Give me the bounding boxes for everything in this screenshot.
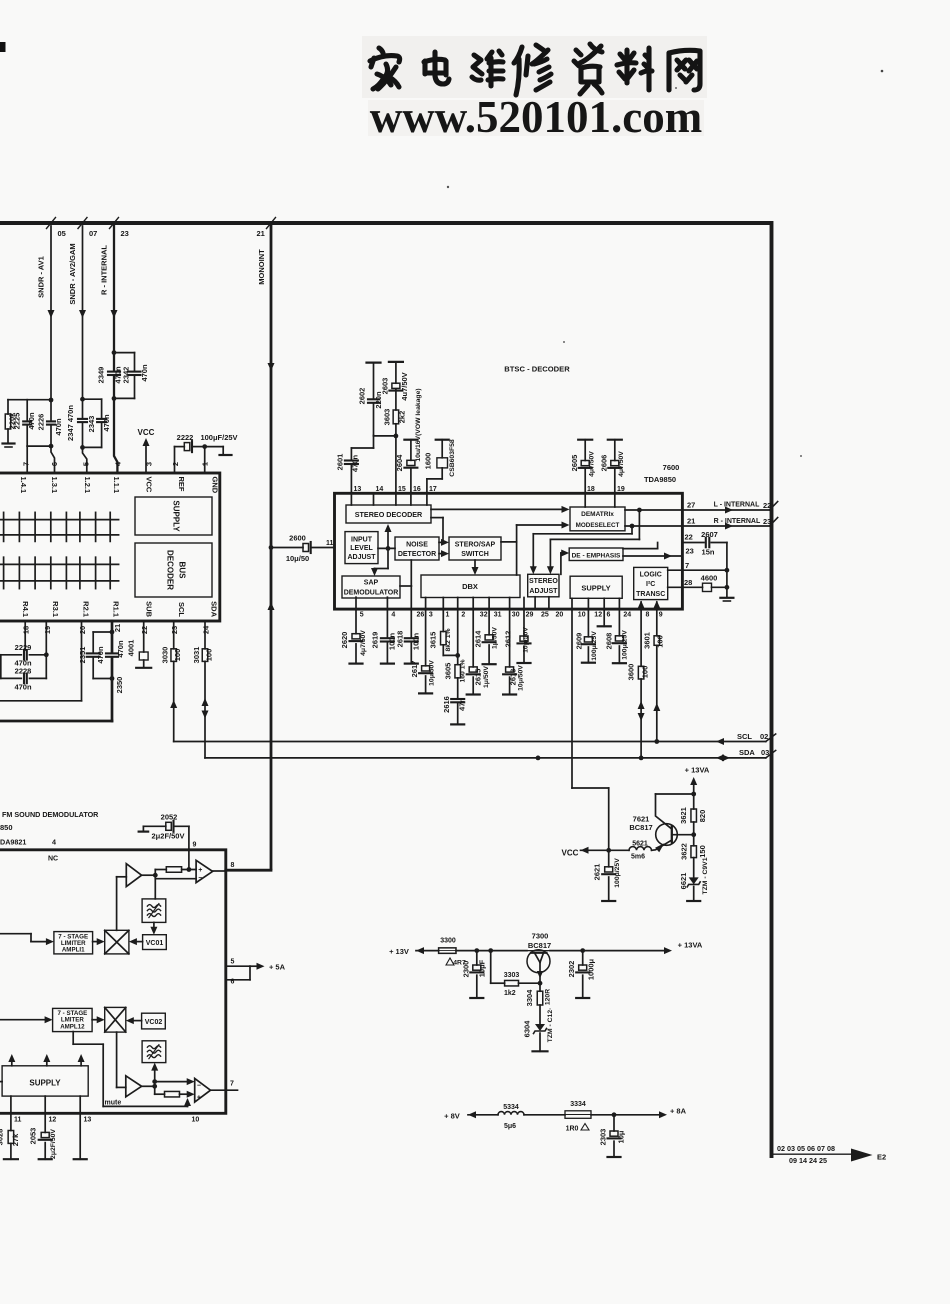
- block STERO/SAP SWITCH: [449, 537, 501, 560]
- svg-text:2302: 2302: [567, 961, 576, 978]
- svg-text:23: 23: [121, 229, 129, 238]
- svg-text:470n: 470n: [27, 412, 36, 430]
- svg-text:I²C: I²C: [646, 581, 655, 588]
- svg-text:470n: 470n: [102, 414, 111, 432]
- svg-text:3: 3: [145, 462, 154, 466]
- svg-text:ADJUST: ADJUST: [529, 588, 558, 595]
- wire R-INTERNAL: [113, 226, 115, 353]
- svg-text:L - INTERNAL: L - INTERNAL: [714, 502, 760, 509]
- svg-text:SUB: SUB: [145, 601, 154, 617]
- capacitor 2604 10u/16V: [410, 468, 412, 494]
- block STEREO DECODER: [346, 505, 431, 523]
- svg-text:4u7/50V: 4u7/50V: [400, 372, 409, 400]
- capacitor 2342 470n bracket: [114, 352, 135, 354]
- node junction: [488, 948, 493, 953]
- svg-text:27: 27: [687, 501, 695, 510]
- svg-text:20: 20: [556, 612, 564, 619]
- block DE-EMPHASIS: [569, 548, 623, 561]
- svg-text:DEMODULATOR: DEMODULATOR: [344, 590, 399, 597]
- svg-text:4: 4: [391, 612, 395, 619]
- resistor 3605 160: [457, 598, 459, 665]
- svg-text:TZM - C9V1: TZM - C9V1: [702, 857, 709, 894]
- svg-text:TDA9850: TDA9850: [644, 475, 676, 484]
- wire pin12: [587, 598, 589, 637]
- wire bracket top: [8, 399, 51, 401]
- node junction: [49, 398, 54, 403]
- resistor 3621 820: [693, 794, 695, 809]
- wire pin21 bus lower: [111, 658, 114, 721]
- ground: [3, 442, 15, 444]
- svg-text:4μ7/50V: 4μ7/50V: [360, 630, 367, 656]
- wire pin5: [355, 597, 357, 634]
- svg-text:6: 6: [231, 979, 235, 986]
- svg-text:2303: 2303: [599, 1129, 608, 1146]
- node bus notch 22: [770, 502, 778, 511]
- svg-text:30: 30: [512, 612, 520, 619]
- watermark header: [362, 36, 707, 98]
- wire: [133, 941, 143, 943]
- wire pin15: [395, 436, 397, 493]
- wire to pin 4: [114, 398, 117, 473]
- opamp buffer 2: [126, 1076, 142, 1097]
- node bus tap 21: [267, 218, 276, 229]
- svg-text:1.1.1: 1.1.1: [112, 477, 121, 494]
- svg-text:23: 23: [686, 547, 694, 556]
- wire switch matrix crosshatch: [0, 519, 119, 521]
- wire to pin 6: [51, 446, 55, 473]
- capacitor 2347 470n: [82, 399, 84, 418]
- svg-text:25: 25: [541, 612, 549, 619]
- wire: [92, 1019, 100, 1021]
- wire: [50, 400, 52, 420]
- opamp output 7: [195, 1078, 211, 1102]
- svg-text:BC817: BC817: [528, 941, 551, 950]
- node junction: [691, 832, 696, 837]
- svg-text:15: 15: [398, 486, 406, 493]
- filter 4001: [143, 621, 145, 652]
- wire: [142, 1085, 155, 1087]
- multiplier X1: [105, 930, 129, 954]
- svg-text:SDA: SDA: [209, 601, 218, 617]
- node junction: [269, 545, 274, 550]
- svg-text:160 1%: 160 1%: [459, 659, 466, 682]
- capacitor 2615 1u/50V: [469, 667, 477, 672]
- svg-text:SUPPLY: SUPPLY: [29, 1079, 61, 1088]
- wire pin29: [523, 598, 525, 637]
- capacitor 2225 470n: [26, 400, 28, 421]
- svg-text:16: 16: [413, 486, 421, 493]
- node E2 bus arrow: [851, 1149, 873, 1162]
- wire to sap demod: [387, 548, 389, 568]
- svg-text:2604: 2604: [395, 454, 404, 472]
- fuse resistor 3334 1R0: [565, 1111, 591, 1119]
- svg-text:19: 19: [43, 626, 52, 634]
- svg-text:2617: 2617: [410, 661, 419, 678]
- svg-text:3028: 3028: [0, 1129, 5, 1146]
- svg-text:LOGIC: LOGIC: [640, 572, 662, 579]
- svg-text:10u/16V(VOW leakage): 10u/16V(VOW leakage): [415, 388, 422, 461]
- svg-text:47n: 47n: [458, 698, 467, 711]
- wire dematrix out pin27: [625, 509, 682, 511]
- svg-text:R4.1: R4.1: [21, 601, 30, 617]
- svg-text:VCC: VCC: [138, 428, 155, 437]
- block NOISE DETECTOR: [395, 537, 439, 560]
- wire supply arrows: [11, 1058, 13, 1066]
- svg-text:SWITCH: SWITCH: [461, 551, 489, 558]
- wire switch to dbx: [474, 560, 476, 571]
- capacitor 2303 10u: [613, 1115, 615, 1131]
- svg-text:GND: GND: [211, 477, 220, 494]
- svg-text:20: 20: [78, 626, 87, 634]
- capacitor 2616 47n: [451, 698, 464, 700]
- svg-text:STERO/SAP: STERO/SAP: [455, 542, 496, 549]
- block SUPPLY: [135, 497, 212, 535]
- svg-text:4μ7/50V: 4μ7/50V: [618, 451, 625, 477]
- svg-text:1k2: 1k2: [504, 990, 516, 997]
- svg-text:SUPPLY: SUPPLY: [581, 584, 610, 593]
- block VCO1: [143, 935, 167, 950]
- IC 7600 TDA9850 box: [335, 493, 683, 609]
- svg-text:2053: 2053: [28, 1128, 37, 1145]
- svg-text:3304: 3304: [525, 989, 534, 1007]
- svg-text:SNDR - AV1: SNDR - AV1: [37, 256, 46, 298]
- svg-text:150: 150: [698, 845, 707, 858]
- node junction: [612, 1112, 617, 1117]
- svg-text:2351: 2351: [78, 647, 87, 664]
- svg-text:2618: 2618: [395, 631, 404, 648]
- svg-text:1: 1: [200, 462, 209, 466]
- svg-text:3601: 3601: [643, 632, 652, 649]
- wire pin18: [24, 621, 26, 650]
- node bus notch 23: [770, 518, 778, 527]
- wire: [527, 950, 550, 952]
- wire: [155, 1081, 191, 1083]
- svg-text:DETECTOR: DETECTOR: [398, 551, 436, 558]
- capacitor 2300 10uF: [476, 951, 478, 965]
- wire to stereo decoder: [387, 527, 389, 548]
- svg-text:100μF/25V: 100μF/25V: [200, 433, 237, 442]
- wire pin21 R-INTERNAL: [682, 525, 769, 527]
- wire stereo decoder to switch: [431, 517, 443, 519]
- wire: [550, 950, 583, 952]
- wire: [591, 1114, 614, 1116]
- node junction: [110, 676, 115, 681]
- svg-text:24: 24: [623, 612, 631, 619]
- wire pin31: [488, 598, 490, 635]
- svg-text:SDA: SDA: [739, 748, 755, 757]
- node junction: [580, 948, 585, 953]
- svg-text:2342: 2342: [122, 367, 131, 384]
- svg-text:VCC: VCC: [562, 849, 579, 858]
- svg-text:2601: 2601: [336, 454, 345, 471]
- svg-text:+: +: [198, 867, 202, 874]
- svg-text:21: 21: [113, 624, 122, 632]
- node junction: [80, 397, 85, 402]
- filter 90deg block 2: [142, 1041, 166, 1063]
- node junction: [202, 444, 207, 449]
- svg-text:100: 100: [640, 666, 649, 679]
- wire: [456, 950, 527, 952]
- svg-text:1000μ: 1000μ: [587, 958, 596, 980]
- svg-text:+ 13VA: + 13VA: [685, 766, 710, 775]
- svg-text:1μ/50V: 1μ/50V: [492, 627, 499, 649]
- wire pin10 long: [571, 598, 573, 788]
- warning 4R7: [446, 958, 454, 965]
- wire pin32: [472, 598, 474, 667]
- block SAP DEMODULATOR: [342, 576, 400, 598]
- wire pin26: [410, 586, 412, 637]
- svg-text:19: 19: [617, 486, 625, 493]
- inductor 5334 5u6: [498, 1112, 524, 1115]
- svg-text:470n: 470n: [14, 683, 32, 692]
- svg-text:NOISE: NOISE: [406, 542, 428, 549]
- svg-text:6621: 6621: [679, 873, 688, 890]
- svg-text:ADJUST: ADJUST: [347, 554, 376, 561]
- svg-text:2619: 2619: [370, 632, 379, 649]
- svg-text:SNDR - AV2/GAM: SNDR - AV2/GAM: [68, 243, 77, 304]
- capacitor 2613 10u/50V: [506, 667, 514, 672]
- svg-text:3621: 3621: [679, 807, 688, 824]
- capacitor 2608 100u/25V: [615, 636, 623, 641]
- svg-text:4001: 4001: [127, 640, 136, 657]
- svg-text:NC: NC: [48, 856, 58, 863]
- svg-text:www.520101.com: www.520101.com: [370, 92, 702, 142]
- capacitor 2601 470n: [350, 465, 352, 493]
- block LOGIC I2C TRANSC: [634, 567, 668, 599]
- node bus tap 07: [78, 218, 87, 229]
- svg-text:MODESELECT: MODESELECT: [576, 522, 620, 529]
- svg-text:24: 24: [202, 625, 211, 634]
- wire pin27 L-INTERNAL: [682, 509, 769, 511]
- wire pin25 stub: [534, 597, 536, 609]
- node junction: [637, 508, 642, 513]
- block 7-STAGE LIMITER AMPL12: [53, 1008, 93, 1031]
- wire pin20 stub: [548, 597, 550, 609]
- wire pin13: [79, 1113, 81, 1159]
- node bus tap 23: [110, 218, 119, 229]
- svg-text:2343: 2343: [87, 416, 96, 433]
- wire: [10, 1096, 12, 1113]
- wire: [93, 941, 101, 943]
- capacitor 2052 2u2F/50V: [143, 825, 165, 827]
- svg-text:29: 29: [526, 612, 534, 619]
- power +13VA out: [583, 950, 664, 952]
- svg-text:4: 4: [52, 838, 56, 847]
- node junction: [639, 756, 644, 761]
- svg-text:+ 8V: + 8V: [444, 1112, 460, 1121]
- svg-text:VC02: VC02: [145, 1019, 163, 1026]
- wire de-emphasis to pin23: [623, 555, 682, 557]
- node junction: [386, 546, 391, 551]
- wire pin6: [603, 598, 605, 626]
- svg-text:DBX: DBX: [462, 582, 478, 591]
- wire input2: [0, 1019, 48, 1021]
- wire pin8 MONOINT: [213, 870, 226, 872]
- svg-text:R3.1: R3.1: [51, 601, 60, 617]
- node junction: [153, 873, 158, 878]
- capacitor 2053 2u2F/50V: [44, 1113, 46, 1132]
- filter 90deg block: [142, 899, 166, 923]
- resistor 3601 100: [656, 602, 658, 636]
- wire: [0, 1081, 2, 1083]
- svg-text:DECODER: DECODER: [166, 550, 175, 590]
- svg-text:2: 2: [171, 462, 180, 466]
- svg-text:DEMATRIx: DEMATRIx: [581, 511, 614, 518]
- capacitor 2228 470n: [23, 674, 25, 684]
- svg-text:21: 21: [257, 229, 265, 238]
- capacitor 2621 100u/25V: [608, 850, 610, 867]
- svg-text:2600: 2600: [289, 534, 306, 543]
- svg-text:3605: 3605: [443, 663, 452, 680]
- svg-text:−: −: [198, 875, 202, 882]
- svg-text:2608: 2608: [605, 633, 614, 650]
- svg-text:2616: 2616: [442, 696, 451, 713]
- node junction: [152, 1079, 157, 1084]
- wire logic pins: [668, 569, 683, 571]
- svg-text:R - INTERNAL: R - INTERNAL: [714, 518, 761, 525]
- wire SNDR-AV2/GAM: [82, 226, 84, 399]
- svg-text:1μ/50V: 1μ/50V: [483, 666, 490, 688]
- node bus notch 03: [766, 750, 776, 758]
- capacitor 2617 10u/50V: [422, 666, 430, 671]
- svg-text:2612: 2612: [504, 631, 513, 648]
- svg-text:11: 11: [14, 1117, 22, 1124]
- wire input1: [0, 933, 31, 935]
- svg-text:2347 470n: 2347 470n: [66, 405, 75, 441]
- svg-text:850: 850: [0, 823, 13, 832]
- svg-text:mute: mute: [105, 1100, 122, 1107]
- svg-text:+ 13V: + 13V: [389, 947, 409, 956]
- svg-text:10μ: 10μ: [616, 1130, 625, 1143]
- node junction: [80, 445, 85, 450]
- svg-text:2613: 2613: [508, 669, 517, 686]
- svg-text:9: 9: [193, 842, 197, 849]
- svg-text:3030: 3030: [161, 647, 170, 664]
- svg-text:12: 12: [594, 612, 602, 619]
- wire: [426, 493, 428, 505]
- block SUPPLY: [570, 576, 622, 598]
- block 7-STAGE LIMITER AMPLI1: [54, 932, 93, 954]
- wire stereo decoder to dematrix: [431, 508, 564, 510]
- capacitor 2602 220n: [373, 404, 375, 436]
- svg-text:13: 13: [84, 1117, 92, 1124]
- svg-text:2620: 2620: [340, 632, 349, 649]
- wire pin24: [618, 598, 620, 636]
- wire SDA: [205, 757, 766, 759]
- svg-text:DA9821: DA9821: [0, 838, 26, 847]
- svg-text:12: 12: [49, 1117, 57, 1124]
- svg-text:21: 21: [687, 517, 695, 526]
- svg-text:470n: 470n: [140, 364, 149, 382]
- ground: [205, 446, 224, 448]
- wire: [584, 493, 586, 507]
- svg-text:2615: 2615: [474, 669, 483, 686]
- svg-text:SCL: SCL: [737, 732, 752, 741]
- svg-text:3615: 3615: [428, 632, 437, 649]
- svg-text:470n: 470n: [351, 455, 360, 473]
- block DBX: [421, 575, 520, 598]
- svg-text:7: 7: [21, 462, 30, 466]
- svg-text:3622: 3622: [679, 843, 688, 860]
- svg-text:7: 7: [230, 1081, 234, 1088]
- svg-text:2300: 2300: [461, 961, 470, 978]
- node junction: [49, 444, 54, 449]
- svg-text:3600: 3600: [627, 664, 636, 681]
- svg-text:2228: 2228: [15, 667, 32, 676]
- svg-text:2μ2F/50V: 2μ2F/50V: [152, 832, 185, 841]
- svg-text:2229: 2229: [15, 643, 32, 652]
- wire: [373, 493, 375, 505]
- node junction: [630, 524, 635, 529]
- svg-text:15n: 15n: [702, 548, 715, 557]
- transistor 7621 BC817: [656, 824, 678, 846]
- wire pin7: [682, 569, 727, 571]
- wire switch to dematrix: [501, 541, 517, 543]
- svg-text:05: 05: [58, 229, 66, 238]
- svg-text:10μF: 10μF: [477, 959, 486, 977]
- resistor 3600 100: [640, 602, 642, 666]
- svg-text:AMPL12: AMPL12: [60, 1023, 85, 1030]
- svg-text:3603: 3603: [382, 409, 391, 426]
- svg-text:STEREO DECODER: STEREO DECODER: [355, 510, 423, 519]
- wire: [374, 435, 396, 437]
- svg-text:100: 100: [173, 649, 182, 662]
- svg-text:2μ2F/50V: 2μ2F/50V: [50, 1129, 57, 1159]
- svg-text:8: 8: [646, 612, 650, 619]
- svg-text:2607: 2607: [701, 530, 718, 539]
- svg-text:2606: 2606: [599, 455, 608, 472]
- block STEREO ADJUST: [528, 574, 559, 597]
- svg-text:1.4.1: 1.4.1: [19, 477, 28, 494]
- svg-text:R2.1: R2.1: [82, 601, 91, 617]
- wire pin4: [386, 597, 388, 637]
- node junction: [187, 867, 192, 872]
- node junction: [538, 981, 543, 986]
- svg-text:2222: 2222: [177, 433, 194, 442]
- capacitor 2612 10u/50V: [520, 636, 528, 641]
- capacitor 2607 15n: [682, 542, 704, 544]
- svg-text:2609: 2609: [574, 633, 583, 650]
- capacitor 2226 470n: [47, 420, 55, 422]
- svg-text:2052: 2052: [161, 813, 178, 822]
- node junction: [536, 756, 541, 761]
- wire: [130, 1020, 142, 1022]
- wire noise det to pin26 node: [410, 560, 412, 586]
- svg-text:7300: 7300: [532, 932, 549, 941]
- capacitor 2619 100n: [381, 637, 394, 639]
- node junction: [606, 848, 611, 853]
- wire pin7: [211, 1089, 238, 1091]
- resistor mute path: [155, 1093, 165, 1095]
- wire pin3: [425, 598, 427, 666]
- svg-text:2: 2: [461, 612, 465, 619]
- node bus notch 02: [766, 734, 776, 742]
- wire pin7: [26, 446, 28, 473]
- svg-text:1R0: 1R0: [566, 1126, 579, 1133]
- node junction: [654, 739, 659, 744]
- node junction: [394, 434, 399, 439]
- svg-text:11: 11: [326, 540, 334, 547]
- wire - main bus top line and right border: [0, 223, 772, 1156]
- wire pin20: [81, 621, 83, 701]
- wire: [154, 870, 156, 899]
- ground: [720, 597, 733, 599]
- svg-text:31: 31: [494, 612, 502, 619]
- svg-text:8: 8: [231, 862, 235, 869]
- wire to pin 5: [83, 447, 87, 473]
- wire pin14 upper: [373, 435, 375, 448]
- node junction: [44, 652, 49, 657]
